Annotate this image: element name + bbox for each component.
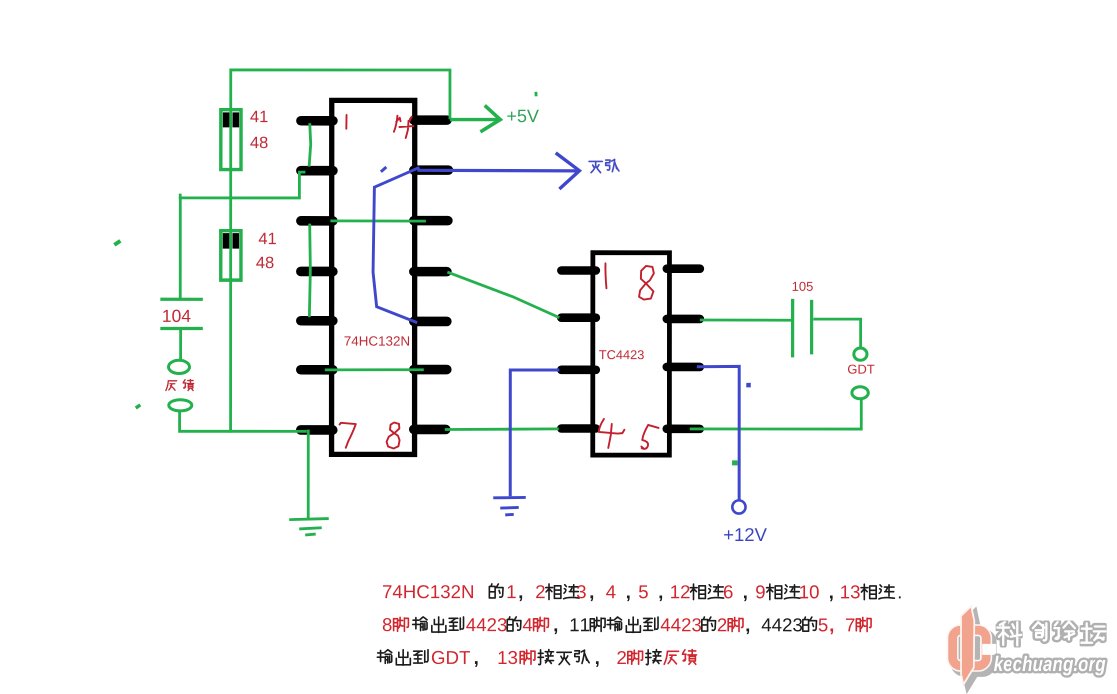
- red label 105: [793, 282, 813, 291]
- U2 pin 7: [667, 315, 700, 324]
- resistor R2 body: [221, 231, 241, 280]
- U1 pin 13: [414, 165, 449, 175]
- red handwritten pin numbers U1: [340, 115, 659, 449]
- pin number 8 (U2): [639, 266, 654, 300]
- green wires: [114, 70, 868, 535]
- stray blue dot: [746, 383, 751, 388]
- U2 pin 4: [561, 424, 596, 433]
- pin number 1 (U2): [605, 263, 606, 288]
- wire U1 pin1-pin2 link: [309, 123, 311, 167]
- wire bottom rail U1 pin8 to U2 pin4: [445, 427, 559, 431]
- U1 pin 3: [301, 216, 333, 226]
- bottom note text line 2: [383, 617, 871, 634]
- red label 41 (R1): [250, 111, 267, 122]
- resistor R2 black band: [223, 233, 230, 249]
- capacitor C105 right plate: [810, 300, 813, 355]
- resistor R1 body: [221, 110, 241, 170]
- wire U2 pin5 to GDT return: [690, 399, 862, 429]
- blue label +12V: [724, 528, 767, 541]
- U1 pin 5: [301, 316, 333, 326]
- U2 pin 1: [561, 266, 596, 275]
- red label 反馈: [166, 381, 177, 391]
- pin number 7 (U1): [340, 423, 356, 448]
- stray blue dash: [381, 167, 386, 172]
- wire U1 row3 crossing: [330, 219, 426, 222]
- wire through R2: [229, 229, 232, 282]
- wire to capacitor C104: [179, 197, 182, 299]
- +5V arrowhead: [480, 105, 500, 131]
- U1 pin 12: [414, 216, 448, 226]
- U2 pin 2: [561, 313, 596, 322]
- U1 pin 1: [301, 116, 333, 126]
- red label 48 (R1): [250, 137, 267, 149]
- pin number 14 scribble (U1): [394, 116, 414, 138]
- green label +5V: [507, 110, 539, 123]
- U1 pin 14: [414, 115, 447, 125]
- ground symbol green: [289, 519, 329, 535]
- capacitor C104 top plate: [160, 298, 202, 301]
- wire U1 pin3-pin5 link: [309, 224, 310, 318]
- U2 pin 6: [667, 363, 700, 372]
- wire GDT to capacitor C105: [813, 319, 860, 348]
- pin number 1 (U1): [345, 115, 347, 129]
- wire U2 pin3 to ground: [510, 370, 559, 496]
- pin number 5 (U2): [641, 425, 658, 449]
- stray mark 4: [733, 461, 738, 465]
- wire ground branch U1: [307, 430, 310, 519]
- wire R2 to bottom rail: [229, 280, 232, 432]
- U2 pin 8: [667, 264, 700, 273]
- blue wires: [373, 153, 751, 515]
- red label 41 (R2): [259, 233, 276, 244]
- U2 pin 3: [561, 365, 596, 374]
- U1 pin 9: [414, 365, 447, 375]
- stray mark 1: [114, 241, 120, 245]
- capacitor C105 left plate: [791, 299, 794, 358]
- wire +5V arrow line: [450, 118, 498, 121]
- GDT bottom terminal: [852, 387, 868, 399]
- U1 pin 8: [414, 425, 446, 435]
- watermark text kechuang.org: [994, 656, 1105, 676]
- wire C104 to terminal: [179, 328, 182, 360]
- watermark text 科创论坛: [997, 622, 1105, 646]
- red label 104: [163, 310, 190, 322]
- ground symbol blue: [493, 497, 526, 514]
- red label 74HC132N: [345, 336, 410, 346]
- +12V terminal circle: [732, 500, 745, 513]
- IC U2 TC4423 body: [593, 253, 670, 455]
- pin number 4 (U2): [599, 419, 625, 448]
- wire U1 row6 crossing: [325, 368, 424, 371]
- red label GDT: [848, 365, 874, 374]
- IC U1 74HC132N body: [332, 100, 415, 454]
- wire R1 to R2: [229, 169, 232, 230]
- arc-quench arrowhead: [556, 153, 580, 189]
- U1 pin 2: [301, 166, 333, 176]
- wire U2 pin6 to +12V: [697, 366, 739, 500]
- wire U1 pin11 to U2 pin2 diagonal: [447, 272, 559, 318]
- wire U1 pin13 to arc-quench arrow: [417, 169, 578, 173]
- wire U2 pin7 to C105: [700, 319, 792, 322]
- red label 48 (R2): [256, 257, 273, 269]
- watermark kechuang logo: [953, 606, 997, 689]
- stray mark 3: [534, 92, 537, 97]
- wire top loop +5V rail: [231, 70, 450, 119]
- U1 pin 11: [414, 267, 447, 277]
- pin number 8 (U1): [387, 423, 400, 449]
- wire terminal B to bottom rail: [180, 411, 307, 431]
- capacitor C104 bottom plate: [160, 327, 202, 330]
- bottom note text line 1: [383, 584, 901, 601]
- U1 pin 7: [301, 425, 333, 435]
- terminal ellipse B: [169, 400, 192, 411]
- red label TC4423: [599, 350, 644, 359]
- U1 pin 4: [301, 267, 333, 277]
- wire horizontal node to pin2: [180, 172, 305, 198]
- resistor R1 black band: [223, 112, 230, 127]
- wire U1 pin13 to pin10 internal: [373, 167, 419, 322]
- GDT top terminal: [854, 348, 867, 360]
- stray mark 2: [136, 405, 141, 408]
- bottom note text line 3: [377, 649, 696, 667]
- wire through R1: [229, 108, 232, 171]
- U1 pin 6: [301, 365, 333, 375]
- terminal ellipse A: [169, 360, 190, 373]
- blue label 灭弧: [589, 161, 602, 172]
- U1 pin 10: [414, 317, 447, 327]
- U2 pin 5: [667, 425, 700, 434]
